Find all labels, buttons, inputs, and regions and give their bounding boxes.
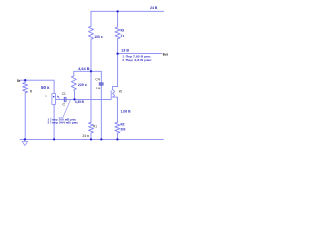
resistor R3 zigzag: [115, 27, 120, 39]
wire 220k bottom to node 4,35V: [73, 90, 76, 99]
wire R2 bottom: [116, 133, 118, 139]
svg-text:4,35 В: 4,35 В: [75, 100, 84, 104]
ground triangle: [22, 141, 27, 145]
node 13V output: [116, 53, 118, 55]
wire node 4,64V down to R1: [90, 71, 92, 122]
svg-text:М1: М1: [119, 89, 122, 93]
svg-text:1 мк: 1 мк: [96, 86, 101, 90]
wire M1 source to R2: [116, 97, 118, 122]
svg-text:2: 2: [122, 58, 124, 62]
wire C4 top lead: [100, 71, 102, 82]
svg-text:2: 2: [48, 120, 50, 124]
svg-text:50 к: 50 к: [41, 85, 50, 90]
resistor R input zigzag: [23, 83, 28, 93]
node 4,35V: [73, 98, 75, 100]
node ground rail / R2: [116, 138, 118, 140]
wire R3 bottom to M1 drain: [117, 39, 119, 87]
wire C4 bottom lead: [100, 85, 102, 139]
svg-text:300: 300: [121, 127, 126, 131]
node ground rail / input branch: [24, 138, 26, 140]
resistor R2 zigzag: [115, 122, 120, 133]
node input: [24, 79, 26, 81]
potentiometer wiper arrow: [57, 96, 60, 99]
wire pot wiper to C1: [56, 98, 64, 100]
labels dark: [17, 53, 168, 139]
annotation text left block: [48, 118, 79, 125]
wire node 4,64V horizontal: [74, 70, 102, 72]
svg-text:R3: R3: [121, 28, 124, 32]
wire input node to resistor: [24, 80, 26, 82]
svg-text:R2: R2: [121, 123, 125, 127]
resistor 220k zigzag: [71, 76, 76, 90]
svg-text:1,08 В: 1,08 В: [121, 110, 131, 114]
svg-text:Вых: Вых: [163, 53, 168, 57]
annotation leader line: [59, 100, 71, 118]
wire input resistor to ground rail: [24, 93, 26, 140]
node ground rail / pot: [53, 138, 55, 140]
svg-text:24 В: 24 В: [150, 6, 158, 10]
wire output node to Vykh: [118, 52, 162, 54]
potentiometer wiper contact dot: [53, 96, 55, 98]
svg-text:пер 564 мВ рмс: пер 564 мВ рмс: [52, 120, 79, 124]
wire gate from node 4,35V to M1: [66, 98, 111, 100]
node top rail / R3: [116, 10, 118, 12]
svg-text:R1: R1: [93, 125, 97, 129]
labels blue: [41, 6, 158, 131]
transistor M1: [111, 87, 117, 100]
junction node dots: [24, 10, 119, 140]
annotation text right block: [122, 54, 152, 62]
ground stub: [24, 139, 26, 141]
svg-text:220 к: 220 к: [78, 83, 87, 87]
wire pot bottom to ground rail: [53, 104, 55, 139]
resistor R1 zigzag: [89, 122, 94, 133]
svg-text:24 в: 24 в: [82, 134, 89, 138]
svg-text:Вх: Вх: [17, 79, 20, 83]
svg-text:C4: C4: [95, 78, 99, 82]
wire R3 top lead: [117, 11, 119, 27]
svg-text:C: C: [62, 103, 65, 107]
M1 gate bar: [110, 90, 112, 99]
wire input horizontal: [20, 80, 55, 93]
svg-text:100 к: 100 к: [94, 35, 102, 39]
svg-text:Пер 4,8 В рмс: Пер 4,8 В рмс: [126, 58, 152, 62]
node ground rail / R1: [90, 138, 92, 140]
capacitor C1 plates: [64, 97, 66, 102]
knob mark left of potentiometer: [45, 96, 47, 97]
svg-text:C1: C1: [62, 92, 66, 96]
node ground rail / C4: [100, 138, 102, 140]
resistor 100k zigzag: [89, 26, 94, 39]
wire 100k bottom to node 4,64V: [90, 39, 92, 71]
capacitor C4 plates: [99, 83, 104, 85]
wire R1 bottom: [90, 133, 92, 139]
svg-text:3 к: 3 к: [121, 34, 125, 38]
wire bottom ground rail: [20, 138, 163, 140]
wire 220k top lead: [73, 71, 75, 76]
svg-text:4,64 В: 4,64 В: [78, 66, 90, 71]
node 4,64V: [90, 70, 92, 72]
svg-text:13 В: 13 В: [121, 49, 129, 53]
wire top +24V rail: [91, 11, 164, 26]
potentiometer body: [52, 94, 56, 105]
